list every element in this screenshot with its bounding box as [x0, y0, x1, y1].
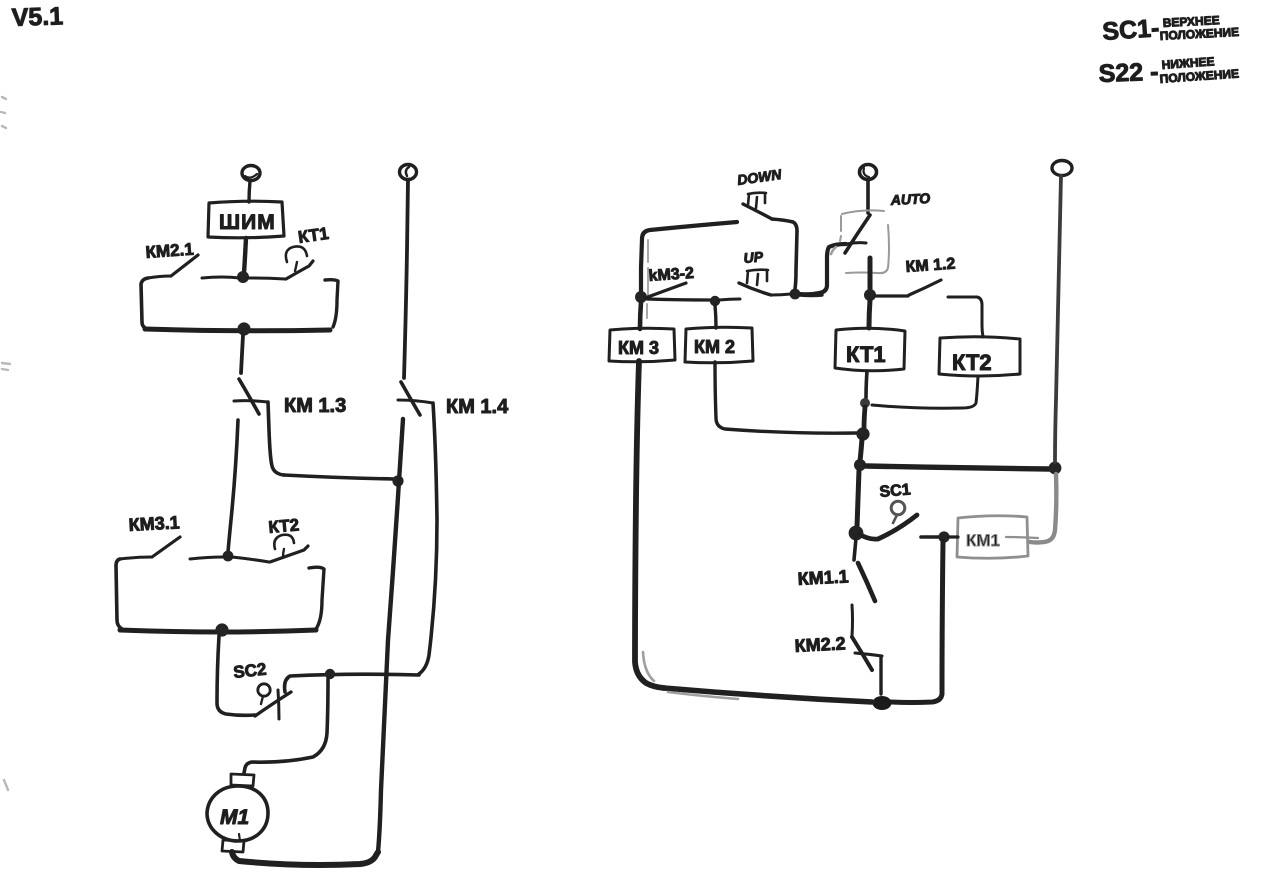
coil KM1 (pencil) [957, 516, 1038, 559]
contact KM1.2 [876, 280, 982, 326]
node N junction (right rail) [1049, 462, 1062, 475]
contact KM1.1 [854, 538, 875, 601]
wire node P into KM1 coil [948, 535, 958, 538]
wire KM2 coil to node K [715, 362, 857, 433]
wire X1 to PWM box [249, 181, 250, 202]
wire node M down to SC1 [857, 470, 859, 527]
wire node K to node M [860, 439, 862, 461]
wire KM3 coil to left rail bottom [635, 361, 664, 688]
contact KM1.3 [234, 379, 394, 479]
node L junction (KT1/KT2 bottoms) [860, 398, 870, 408]
svg-text:КТ1: КТ1 [846, 342, 886, 367]
wire node H into KM3 coil [640, 302, 641, 329]
wire node E to SC2 [217, 636, 255, 715]
wire KM1.3 to KM3.1 [228, 420, 238, 552]
contact KM3.2 blade [645, 283, 686, 298]
wire AUTO left branch to node G [799, 244, 846, 294]
contact SC1 (limit switch) [859, 501, 917, 539]
svg-text:КМ 1.3: КМ 1.3 [284, 395, 346, 417]
terminal X3 [860, 165, 877, 180]
contact KT1 (time relay, arc symbol) [248, 246, 313, 279]
PWM block ШИМ [208, 201, 284, 238]
contact KM1.4 [398, 382, 437, 674]
svg-text:КМ1.1: КМ1.1 [797, 566, 849, 589]
svg-text:ПОЛОЖЕНИЕ: ПОЛОЖЕНИЕ [1159, 25, 1239, 43]
svg-text:UP: UP [743, 248, 764, 266]
wire parallel loop KM2.1/KT1 [141, 278, 338, 331]
motor M1 [207, 774, 268, 852]
svg-text:КМ 2: КМ 2 [694, 337, 735, 357]
wire SC2 output rail to KM1.4 bracket [285, 674, 419, 692]
terminal X1 [242, 166, 260, 181]
contact KM2.2 [852, 605, 882, 694]
pushbutton actuator UP [747, 270, 768, 285]
node B junction [237, 322, 250, 335]
contact DOWN [743, 204, 797, 289]
wire AUTO fixed contact down [868, 258, 873, 291]
wire node G to AUTO lower [800, 293, 822, 297]
wire node P down to bottom rail [891, 541, 943, 703]
wire node M to right rail [866, 466, 1050, 469]
node H junction (KM3 coil top) [635, 291, 647, 303]
coil KM3 [609, 328, 675, 362]
svg-text:DOWN: DOWN [736, 166, 783, 188]
node C junction (KM1.3/KM1.4 outputs) [392, 475, 403, 486]
svg-text:КМ 3: КМ 3 [618, 338, 659, 358]
contact KM3.1 [120, 537, 224, 559]
wire node B down [241, 335, 243, 373]
node J junction (KT1 top) [864, 289, 876, 301]
coil KM2 [685, 327, 753, 363]
node E junction (KM3.1 bottom) [215, 623, 228, 636]
svg-text:М1: М1 [220, 806, 249, 829]
wire KM1.2 bracket to KT2 coil [982, 326, 983, 337]
wire X2 down to KM1.4 [404, 180, 408, 378]
svg-text:КТ2: КТ2 [952, 350, 992, 375]
faint guide line [647, 240, 648, 318]
node Q junction (bottom rail, big blob) [873, 696, 892, 710]
node F junction (motor feed tap) [325, 669, 335, 679]
svg-text:SC1: SC1 [879, 481, 912, 501]
pencil echo marks [643, 247, 836, 699]
svg-text:SC1-: SC1- [1101, 14, 1160, 46]
contact KT2 (time relay, arc symbol) [232, 535, 308, 562]
wire bottom rail KM3 to node Q [664, 688, 872, 702]
wire X3 to switch AUTO [866, 180, 870, 213]
svg-text:КМ1: КМ1 [966, 531, 1000, 550]
svg-text:КМ 1.4: КМ 1.4 [446, 396, 509, 418]
contact SC2 (limit switch) [255, 684, 291, 719]
wire KT2 coil bottom to node L [872, 376, 978, 408]
scan artifacts left edge [1, 97, 10, 790]
wire KM1.4 lower stub to node C and motor return [378, 419, 403, 852]
wire top-left rail to DOWN [641, 222, 737, 293]
svg-text:КМ3.1: КМ3.1 [128, 512, 180, 535]
node A junction [237, 271, 249, 283]
wire motor M1 bottom return [232, 852, 378, 865]
svg-text:ШИМ: ШИМ [219, 211, 276, 234]
wire SC1 output to node P [921, 535, 939, 539]
svg-text:SC2: SC2 [232, 660, 267, 682]
coil KT1 [835, 328, 905, 371]
svg-text:КМ2.1: КМ2.1 [145, 240, 194, 262]
wire node F to motor M1 [244, 679, 328, 773]
svg-text:kМ3-2: kМ3-2 [648, 265, 695, 285]
node P junction (KM1 coil left) [938, 531, 949, 542]
wire right rail to KM1 coil (pencil) [1030, 474, 1056, 543]
node O junction (SC1 tie, big blob) [849, 526, 864, 541]
wire X4 down right rail [1055, 176, 1061, 462]
note S22 legend [1098, 54, 1239, 88]
node K junction (KM2 tie) [856, 427, 869, 440]
wire KT1 coil to node L [866, 371, 867, 398]
switch SA AUTO (selector, light box) [840, 210, 889, 273]
svg-text:AUTO: AUTO [889, 190, 930, 208]
node I junction (KM2 coil top) [710, 296, 720, 306]
contact KM2.1 [148, 255, 240, 278]
terminal X2 [400, 165, 417, 180]
terminal X4 [1052, 161, 1072, 176]
wire parallel loop KM3.1/KT2 [116, 559, 324, 632]
wire PWM to node A [244, 238, 246, 273]
svg-text:КМ 1.2: КМ 1.2 [905, 256, 956, 276]
wire node L to node K [864, 407, 865, 429]
wire node J into KT1 coil [869, 300, 870, 328]
wire node H to node I [647, 299, 711, 300]
svg-text:S22 -: S22 - [1098, 58, 1159, 88]
wire node I into KM2 coil [715, 305, 716, 328]
wire node I to UP [719, 299, 740, 300]
node M junction (right rail tie) [854, 459, 866, 471]
svg-text:КМ2.2: КМ2.2 [794, 633, 846, 656]
coil KT2 [939, 337, 1020, 376]
svg-text:V5.1: V5.1 [11, 2, 63, 32]
contact AUTO blade [845, 215, 870, 253]
pushbutton actuator DOWN [748, 193, 766, 208]
contact UP [739, 283, 791, 295]
node D junction (KM3.1 top) [223, 551, 234, 562]
svg-text:КТ1: КТ1 [297, 224, 330, 247]
node G junction (UP/DOWN tie) [790, 289, 801, 300]
note SC1 legend [1101, 13, 1239, 46]
